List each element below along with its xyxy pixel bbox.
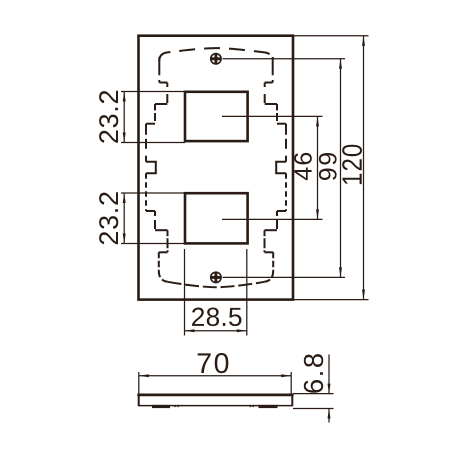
- label 120: [342, 145, 362, 184]
- label 23.2 bottom: [99, 192, 118, 244]
- hidden contour top arc (dashed): [159, 48, 272, 61]
- extension lines for 28.5 (bottom): [185, 249, 247, 336]
- dimension line 28.5: [185, 330, 247, 332]
- label 46: [294, 153, 312, 180]
- profile foot left: [152, 405, 170, 408]
- opening 2 (bottom rectangular hole): [185, 193, 248, 243]
- extension lines for 23.2 dimensions (left): [121, 92, 185, 244]
- profile ticks: [174, 405, 175, 407]
- dimension line 70: [139, 375, 291, 377]
- label 23.2 top: [99, 91, 118, 143]
- label 28.5: [192, 308, 241, 327]
- dimension line 23.2 top: [123, 92, 125, 143]
- hidden mounting-frame contour (dashed), right side: [265, 57, 287, 282]
- side (profile) view slab: [137, 394, 293, 397]
- label 70: [198, 353, 229, 373]
- dimension line 99: [340, 59, 342, 278]
- label 6.8: [304, 354, 323, 393]
- extension lines for 6.8: [293, 394, 334, 409]
- dimension line 46: [317, 116, 319, 219]
- extension lines for 70: [139, 372, 291, 396]
- hidden contour bottom arc (dashed): [168, 282, 265, 287]
- opening 1 (top rectangular hole): [185, 92, 248, 141]
- dimension line 120: [363, 36, 365, 300]
- screw bottom: [211, 272, 221, 282]
- plate outline (front view): [139, 36, 294, 300]
- extension lines to the right (screws, opening centers, plate edges): [222, 36, 369, 300]
- hidden mounting-frame contour (dashed), left side: [146, 57, 168, 282]
- profile foot right: [259, 405, 278, 408]
- dimension line 6.8 (outside arrows): [328, 355, 330, 394]
- dimension line 23.2 bottom: [123, 193, 125, 244]
- label 99: [319, 153, 337, 180]
- screw top: [211, 54, 221, 64]
